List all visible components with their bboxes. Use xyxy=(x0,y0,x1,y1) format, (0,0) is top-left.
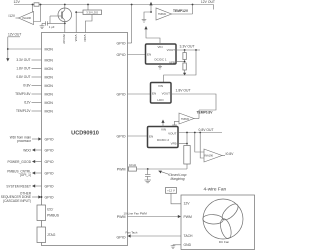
wire 1.8V OUT to MON3 xyxy=(16,67,41,71)
fan connector box xyxy=(181,195,255,250)
svg-text:0.8V OUT: 0.8V OUT xyxy=(16,75,30,79)
wire DC/DC2 VFB xyxy=(178,133,188,146)
svg-text:BPCAP: BPCAP xyxy=(62,35,66,45)
svg-text:GPIO: GPIO xyxy=(117,41,126,45)
chip U2 UCD90910 xyxy=(42,33,128,246)
I2C/PMBUS interface box xyxy=(37,205,60,221)
wire GPIO1 to 12V rail xyxy=(128,5,132,44)
wire DC/DC2 enable xyxy=(128,135,148,137)
ground (DC/DC1) xyxy=(158,64,162,69)
fan M1 DC Fan xyxy=(203,199,243,244)
svg-text:MON: MON xyxy=(45,67,54,71)
svg-text:Margining: Margining xyxy=(171,177,185,181)
svg-text:TEMP0.8V: TEMP0.8V xyxy=(197,111,214,115)
op-amp U3 current sense INA196 (0.8V) xyxy=(195,133,225,163)
shunt resistor on 12V rail xyxy=(34,3,39,6)
svg-text:DC/DC 1: DC/DC 1 xyxy=(154,57,166,61)
wire fan GND xyxy=(173,244,181,246)
svg-text:V33A: V33A xyxy=(74,35,78,42)
junction dots on rail xyxy=(32,4,34,6)
svg-text:VIN: VIN xyxy=(161,128,166,132)
svg-text:POWER_GOOD: POWER_GOOD xyxy=(7,160,31,164)
transistor Q1 NPN pass xyxy=(50,5,72,33)
svg-text:GPIO: GPIO xyxy=(45,148,54,152)
svg-text:VIN: VIN xyxy=(158,84,163,88)
svg-text:GPIO: GPIO xyxy=(45,195,54,199)
svg-text:I2C/: I2C/ xyxy=(47,208,53,212)
svg-text:GPIO: GPIO xyxy=(117,53,126,57)
svg-text:12V: 12V xyxy=(14,0,21,4)
svg-text:3.3V LDO: 3.3V LDO xyxy=(86,10,98,14)
svg-text:GPIO: GPIO xyxy=(45,160,54,164)
wire 0.8V OUT to MON4 xyxy=(16,75,41,79)
svg-text:GPIO: GPIO xyxy=(45,171,54,175)
svg-text:VOUT: VOUT xyxy=(168,131,177,135)
svg-text:I12V: I12V xyxy=(8,14,15,18)
+12 V source box (fan) xyxy=(166,188,182,204)
svg-text:MON: MON xyxy=(45,47,54,51)
ground (under C1) xyxy=(40,23,45,28)
wire LDO enable xyxy=(128,93,151,95)
op-amp TMP20 temp sensor (0.8V) xyxy=(172,110,199,128)
svg-text:12V: 12V xyxy=(184,201,191,205)
svg-text:I0.8V: I0.8V xyxy=(226,152,235,156)
svg-text:12V OUT: 12V OUT xyxy=(201,0,215,4)
wire DC/DC2 VIN flag xyxy=(161,120,164,127)
resistor R3 margining xyxy=(129,163,137,171)
Closed Loop Margining label xyxy=(159,171,187,182)
svg-text:3.3V OUT: 3.3V OUT xyxy=(16,58,30,62)
wire OTHER SEQUENCER DONE xyxy=(1,192,43,203)
svg-text:10-Line Fan PWM: 10-Line Fan PWM xyxy=(124,211,148,215)
resistor R6 divider xyxy=(184,146,190,170)
svg-text:10 kΩ: 10 kΩ xyxy=(129,163,136,167)
wire DC/DC1 VFB xyxy=(176,61,186,63)
svg-text:processor: processor xyxy=(17,139,32,143)
svg-text:DC/DC 2: DC/DC 2 xyxy=(157,138,169,142)
svg-text:12V OUT: 12V OUT xyxy=(8,33,21,37)
svg-text:PMBUS: PMBUS xyxy=(47,214,60,218)
resistor R4 divider upper xyxy=(183,50,186,62)
wire WDO xyxy=(23,148,41,152)
12V rail xyxy=(14,5,214,10)
wire 3.3V OUT rail xyxy=(176,49,200,51)
svg-text:EN: EN xyxy=(152,92,156,96)
JTAG interface box xyxy=(37,227,56,243)
wire 0.8V OUT rail xyxy=(178,132,222,134)
svg-text:MON: MON xyxy=(45,58,54,62)
wire POWER_GOOD xyxy=(7,160,41,164)
svg-text:VFB: VFB xyxy=(169,60,175,64)
resistor R5 divider lower xyxy=(183,63,186,76)
svg-text:(GPI_1): (GPI_1) xyxy=(20,173,31,177)
svg-text:TACH: TACH xyxy=(184,234,194,238)
svg-text:1.8V OUT: 1.8V OUT xyxy=(176,88,191,92)
svg-text:GPIO: GPIO xyxy=(117,134,126,138)
svg-text:PWM: PWM xyxy=(184,215,192,219)
node 12V OUT (left) xyxy=(6,33,21,62)
wire TEMP0.8V to MON6 xyxy=(15,92,41,96)
regulator 3.3V LDO box xyxy=(75,5,101,33)
svg-text:I12V: I12V xyxy=(24,101,31,105)
svg-text:MON: MON xyxy=(45,92,54,96)
svg-text:EN: EN xyxy=(149,135,153,139)
svg-text:4-wire Fan: 4-wire Fan xyxy=(204,186,227,192)
svg-text:UCD90910: UCD90910 xyxy=(71,131,99,137)
svg-text:TMP20: TMP20 xyxy=(181,118,190,121)
capacitor C1 1uF xyxy=(42,21,66,29)
wire SYSTEM RESET xyxy=(6,184,41,188)
svg-text:TMP20: TMP20 xyxy=(158,13,167,16)
svg-text:WDO: WDO xyxy=(23,148,31,152)
svg-text:VOUT: VOUT xyxy=(167,48,176,52)
svg-text:+12 V: +12 V xyxy=(167,189,175,193)
svg-text:VOUT: VOUT xyxy=(162,92,171,96)
svg-text:MON: MON xyxy=(45,109,54,113)
svg-text:TEMP12V: TEMP12V xyxy=(173,9,189,13)
wire MON1 (12V) xyxy=(8,48,42,50)
ground (fan) xyxy=(171,245,176,249)
svg-text:GPIO: GPIO xyxy=(45,184,54,188)
wire 3.3V to LDO VIN xyxy=(164,50,196,83)
svg-text:GPIO: GPIO xyxy=(117,235,126,239)
wire PMBUS_CNTRL xyxy=(7,169,41,177)
svg-text:MON: MON xyxy=(45,75,54,79)
capacitor C2 margining xyxy=(145,169,151,180)
wire 3.3V OUT to MON2 xyxy=(16,58,41,62)
svg-text:DC Fan: DC Fan xyxy=(219,240,230,244)
svg-text:3.3V OUT: 3.3V OUT xyxy=(180,45,195,49)
regulator DC/DC 2 xyxy=(148,127,179,148)
svg-text:(CASCADE INPUT): (CASCADE INPUT) xyxy=(3,199,31,203)
svg-text:GPIO: GPIO xyxy=(45,137,54,141)
wire margining row xyxy=(137,168,188,170)
svg-text:VIN: VIN xyxy=(157,45,162,49)
svg-text:GND: GND xyxy=(184,243,192,247)
svg-text:LDO: LDO xyxy=(157,98,164,102)
wire 10-Line Fan PWM xyxy=(124,211,182,218)
svg-text:1 µF: 1 µF xyxy=(49,25,55,29)
svg-text:V33D: V33D xyxy=(83,35,87,42)
svg-text:Fan Tach: Fan Tach xyxy=(126,230,138,234)
svg-text:PWM: PWM xyxy=(117,167,126,171)
op-amp U1 current sense INA196 (12V) xyxy=(16,5,41,25)
svg-text:VFB: VFB xyxy=(171,142,177,146)
regulator LDO xyxy=(151,83,172,104)
svg-text:MON: MON xyxy=(45,84,54,88)
ground (margining cap) xyxy=(145,180,152,183)
svg-text:TEMP0.8V: TEMP0.8V xyxy=(15,92,31,96)
svg-text:MON: MON xyxy=(45,101,54,105)
wire Fan Tach xyxy=(126,230,182,237)
wire DC/DC1 enable xyxy=(128,54,146,56)
wire TEMP12V to MON8 xyxy=(16,109,42,113)
svg-text:INA196: INA196 xyxy=(204,154,213,158)
svg-text:0.8V OUT: 0.8V OUT xyxy=(199,128,214,132)
svg-text:TEMP12V: TEMP12V xyxy=(16,109,31,113)
svg-text:PWM: PWM xyxy=(117,215,126,219)
op-amp TMP20 temp sensor (12V) xyxy=(142,2,193,22)
wire 1.8V OUT rail xyxy=(171,94,216,110)
wire V33A xyxy=(75,12,77,32)
svg-text:JTAG: JTAG xyxy=(47,233,56,237)
svg-text:I0.8V: I0.8V xyxy=(23,84,31,88)
svg-text:SYSTEM RESET: SYSTEM RESET xyxy=(6,184,31,188)
svg-text:GPIO: GPIO xyxy=(117,92,126,96)
wire WDI from main processor xyxy=(10,135,42,143)
svg-text:INA196: INA196 xyxy=(22,16,31,20)
svg-text:1.8V OUT: 1.8V OUT xyxy=(16,67,30,71)
wire I0.8V to MON5 xyxy=(23,84,41,88)
svg-text:EN: EN xyxy=(147,53,151,57)
regulator DC/DC 1 xyxy=(146,44,177,64)
wire DC/DC1 VIN flag xyxy=(144,26,160,44)
wire I12V to MON7 xyxy=(24,101,42,105)
